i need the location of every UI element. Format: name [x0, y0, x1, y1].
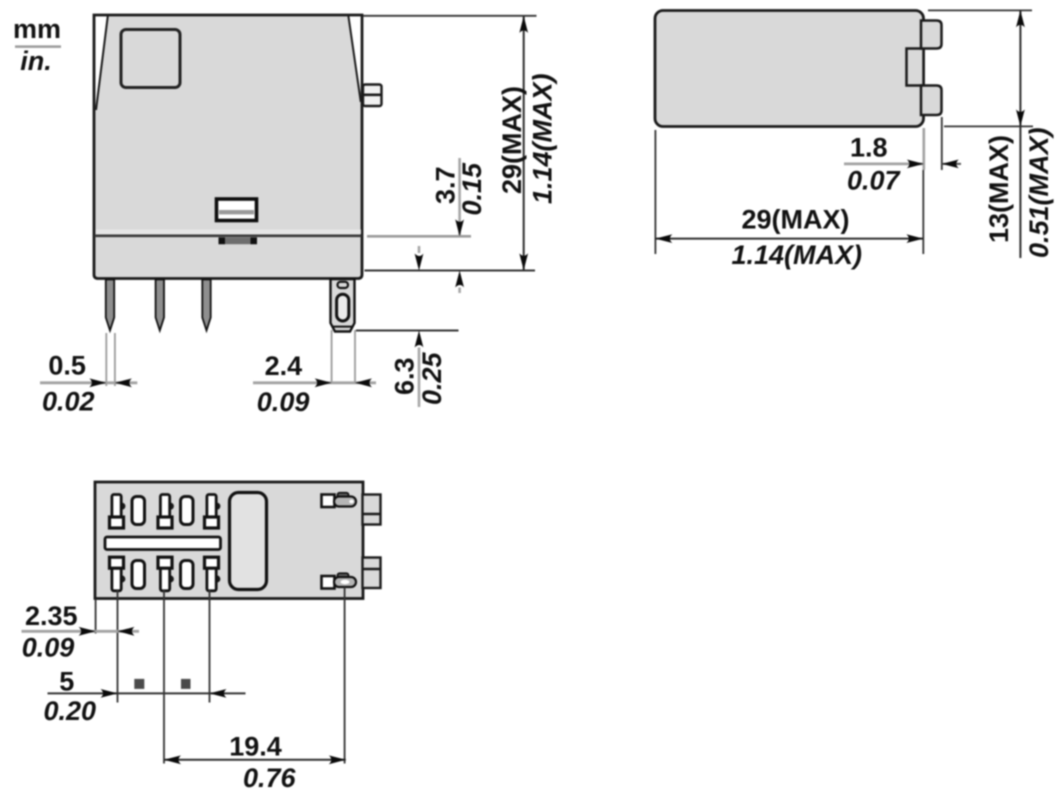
right chamfer white strip — [348, 17, 360, 104]
svg-text:2.35: 2.35 — [25, 601, 78, 631]
svg-text:1.8: 1.8 — [850, 133, 888, 163]
front view relay body — [94, 15, 382, 279]
dimension 19.4 / 0.76 — [164, 732, 346, 794]
svg-text:in.: in. — [20, 46, 52, 76]
center slot — [105, 537, 221, 550]
bottom view bottom row pin 3 — [205, 557, 221, 591]
bottom view top row pin 2 — [158, 495, 174, 529]
top tab — [921, 21, 942, 49]
leader line pin1 bottom view — [117, 590, 119, 703]
svg-text:5: 5 — [59, 667, 74, 697]
spacing marker square 1 — [134, 679, 144, 689]
bottom view bottom row hole 1 — [132, 561, 145, 589]
wide faston pin — [331, 279, 355, 332]
svg-text:1.14(MAX): 1.14(MAX) — [528, 73, 558, 204]
side view relay body — [655, 11, 942, 127]
svg-text:0.5: 0.5 — [48, 351, 86, 381]
reference line at separation — [367, 235, 471, 238]
dimension 1.8 / 0.07 — [844, 117, 961, 196]
right bottom tab — [363, 558, 381, 589]
big slot — [230, 493, 267, 590]
bottom view bottom row pin 2 — [158, 557, 174, 591]
right top tab — [363, 495, 381, 525]
spacing marker square 2 — [181, 679, 191, 689]
svg-text:6.3: 6.3 — [390, 357, 420, 395]
dimension 2.4 / 0.09 — [253, 351, 376, 417]
svg-text:29(MAX): 29(MAX) — [742, 205, 850, 235]
bottom view top row hole 2 — [181, 497, 194, 525]
svg-text:29(MAX): 29(MAX) — [497, 86, 527, 194]
dimension 5 / 0.20 — [44, 667, 246, 727]
faston terminal bottom cross-section — [322, 573, 357, 588]
svg-text:0.02: 0.02 — [42, 387, 95, 417]
svg-text:0.15: 0.15 — [457, 162, 487, 216]
dimension 6.3 / 0.25 — [390, 246, 448, 407]
base notch bar — [219, 237, 258, 244]
dimension 2.35 / 0.09 — [22, 601, 140, 663]
svg-text:0.20: 0.20 — [44, 696, 97, 726]
svg-text:3.7: 3.7 — [431, 166, 461, 204]
extension lines faston width — [331, 330, 333, 382]
leader line pin3 bottom view — [209, 590, 211, 703]
dimension 13(MAX) / 0.51(MAX) — [928, 10, 1054, 258]
bottom view relay body — [95, 482, 381, 599]
reference line top — [363, 15, 537, 17]
pin 3 — [202, 280, 210, 331]
leader line pin2 bottom view — [163, 590, 165, 764]
marking window square — [121, 30, 180, 88]
bottom view top row pin 1 — [110, 495, 126, 529]
dimension 29(MAX) / 1.14(MAX) vertical front — [497, 16, 558, 270]
extension from body corner — [95, 599, 97, 634]
legend mm over in. — [13, 14, 61, 76]
bottom view bottom row pin 1 — [110, 557, 126, 591]
cover/base separation line — [96, 230, 362, 235]
pin 1 — [106, 280, 114, 331]
dimension 29(MAX) / 1.14(MAX) horizontal side — [655, 130, 923, 270]
svg-text:0.09: 0.09 — [257, 387, 310, 417]
reference line pin bottom — [356, 330, 459, 332]
svg-text:0.51(MAX): 0.51(MAX) — [1024, 127, 1054, 258]
svg-text:19.4: 19.4 — [229, 732, 282, 762]
reference line mid — [365, 270, 536, 272]
svg-text:0.07: 0.07 — [847, 166, 902, 196]
svg-text:1.14(MAX): 1.14(MAX) — [732, 240, 863, 270]
bottom tab — [921, 86, 942, 116]
pin 2 — [156, 280, 164, 331]
latch window — [217, 199, 257, 221]
svg-text:0.25: 0.25 — [417, 351, 447, 405]
bottom view bottom row hole 2 — [181, 561, 194, 589]
dimension 0.5 / 0.02 — [40, 351, 137, 417]
svg-text:mm: mm — [13, 14, 61, 44]
svg-text:2.4: 2.4 — [265, 351, 303, 381]
bottom view top row hole 1 — [132, 497, 145, 525]
left chamfer white strip — [96, 17, 108, 111]
side tab on right — [363, 85, 382, 107]
bottom view top row pin 3 — [205, 495, 221, 529]
svg-text:0.76: 0.76 — [243, 763, 297, 793]
faston terminal top cross-section — [322, 493, 357, 507]
notch between tabs — [907, 49, 924, 86]
dimension 3.7 / 0.15 — [431, 158, 488, 293]
svg-text:0.09: 0.09 — [22, 633, 75, 663]
leader line faston bottom view — [344, 587, 346, 764]
extension lines pin1 width — [105, 333, 107, 386]
svg-text:13(MAX): 13(MAX) — [984, 135, 1014, 243]
